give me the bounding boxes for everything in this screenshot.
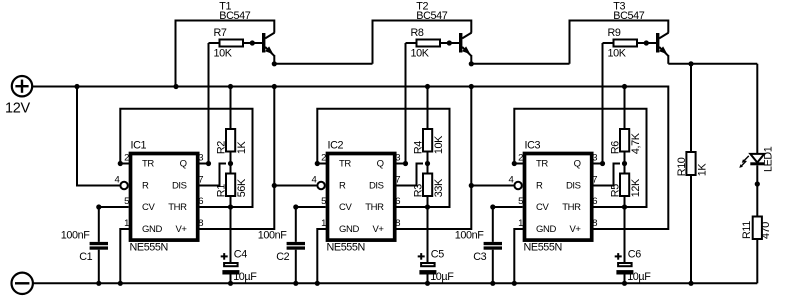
svg-text:1: 1 (321, 218, 326, 229)
svg-text:R2: R2 (216, 141, 228, 154)
svg-text:10K: 10K (433, 135, 445, 154)
svg-text:THR: THR (168, 202, 187, 213)
power supply +12V terminal (5, 76, 32, 117)
svg-text:R1: R1 (216, 184, 228, 197)
transistor T1 BC547 (219, 1, 274, 64)
wire IC2 GND to rail (317, 229, 328, 283)
svg-text:1: 1 (518, 218, 523, 229)
svg-text:1K: 1K (236, 140, 248, 154)
resistor R10 1K (676, 152, 709, 176)
svg-text:CV: CV (339, 202, 352, 213)
svg-text:DIS: DIS (172, 181, 187, 192)
wire IC1 TR-THR loop (120, 109, 252, 207)
wire CV to C2 (296, 207, 326, 242)
node cap-rail junction (96, 281, 101, 286)
resistor R8 10K (406, 27, 460, 60)
node cap-rail junction (490, 281, 495, 286)
svg-text:56K: 56K (236, 178, 248, 197)
wire T3 collector loop from T2 emitter (570, 21, 669, 64)
node Q junction (206, 161, 211, 166)
node TR corner junction (118, 161, 123, 166)
resistor R6 4,7K (610, 129, 642, 154)
transistor T2 BC547 (416, 1, 471, 64)
svg-text:IC3: IC3 (525, 139, 541, 151)
resistor R9 10K (603, 27, 657, 60)
svg-text:BC547: BC547 (613, 10, 644, 22)
svg-text:C6: C6 (628, 249, 641, 261)
svg-text:DIS: DIS (369, 181, 384, 192)
resistor R7 10K (209, 27, 263, 60)
op-amp IC2 NE555N timer (312, 139, 401, 253)
wire IC2 DIS to resistor divider (394, 164, 423, 186)
svg-text:R7: R7 (214, 27, 227, 39)
resistor R4 10K (413, 129, 445, 154)
svg-text:8: 8 (198, 218, 203, 229)
node junction (272, 183, 277, 188)
svg-text:3: 3 (592, 152, 597, 163)
wire IC1 Q output to R7 (197, 43, 209, 164)
pin 4 inversion bubble IC3 (514, 182, 521, 189)
wire emitter to R10 (690, 64, 692, 152)
svg-text:V+: V+ (570, 224, 582, 235)
svg-text:100nF: 100nF (258, 229, 287, 241)
wire to LED branch (756, 64, 758, 154)
wire T3 emitter to output branch (668, 63, 757, 65)
node divider junction (228, 161, 233, 166)
svg-text:Q: Q (377, 159, 384, 170)
svg-text:LED1: LED1 (762, 146, 774, 172)
svg-text:C3: C3 (473, 251, 486, 263)
node gnd junction (315, 281, 320, 286)
svg-text:6: 6 (592, 196, 597, 207)
node Q junction (600, 161, 605, 166)
node base junction (447, 40, 452, 45)
svg-text:TR: TR (536, 159, 548, 170)
svg-text:CV: CV (536, 202, 549, 213)
svg-text:R8: R8 (411, 27, 424, 39)
wire GND bottom rail (33, 282, 757, 284)
node T3 emitter junction (688, 61, 693, 66)
wire IC1 GND to rail (120, 229, 131, 283)
svg-text:R3: R3 (413, 184, 425, 197)
op-amp IC3 NE555N timer (509, 139, 598, 253)
svg-text:R: R (142, 181, 149, 192)
node THR junction (425, 204, 430, 209)
wire CV to C1 (99, 207, 129, 242)
svg-text:100nF: 100nF (61, 229, 90, 241)
capacitor C1 100nF (61, 229, 108, 283)
wire IC3 GND to rail (514, 229, 525, 283)
wire divider mid (624, 152, 626, 174)
node LED junction (755, 181, 760, 186)
wire CV to C3 (493, 207, 523, 242)
node divider junction (622, 161, 627, 166)
svg-text:R: R (536, 181, 543, 192)
svg-text:4: 4 (509, 174, 514, 185)
svg-text:GND: GND (339, 224, 359, 235)
svg-text:100nF: 100nF (455, 229, 484, 241)
node emitter junction (272, 61, 277, 66)
node emitter junction (469, 61, 474, 66)
wire 12V to R6 (624, 87, 626, 130)
svg-text:10µF: 10µF (233, 271, 257, 283)
resistor R1 56K (216, 174, 248, 198)
node CV junction (490, 204, 495, 209)
resistor R2 1K (216, 129, 248, 154)
svg-text:C1: C1 (79, 251, 92, 263)
capacitor C6 10µF (615, 249, 652, 284)
node cap-rail junction (425, 281, 430, 286)
svg-text:12V: 12V (5, 101, 31, 117)
node gnd junction (118, 281, 123, 286)
svg-text:THR: THR (365, 202, 384, 213)
node TR corner junction (512, 161, 517, 166)
svg-text:4: 4 (312, 174, 317, 185)
svg-text:R: R (339, 181, 346, 192)
LED LED1 (739, 146, 774, 172)
wire V+ feed IC2 pin8 / IC3 RESET (397, 87, 515, 230)
svg-text:BC547: BC547 (219, 10, 250, 22)
resistor R5 12K (610, 174, 642, 198)
wire IC3 DIS to resistor divider (591, 164, 620, 186)
svg-text:V+: V+ (373, 224, 385, 235)
node cap-rail junction (293, 281, 298, 286)
node junction (469, 183, 474, 188)
wire 12V to R4 (427, 87, 429, 130)
svg-text:R10: R10 (676, 157, 688, 176)
node base junction (644, 40, 649, 45)
svg-text:5: 5 (321, 196, 326, 207)
svg-text:TR: TR (339, 159, 351, 170)
svg-text:GND: GND (142, 224, 162, 235)
svg-text:4: 4 (115, 174, 120, 185)
pin 4 inversion bubble IC2 (317, 182, 324, 189)
wire IC2 Q output to R8 (394, 43, 406, 164)
capacitor C4 10µF (221, 249, 258, 284)
svg-text:2: 2 (321, 152, 326, 163)
node base junction (250, 40, 255, 45)
svg-text:10K: 10K (214, 48, 233, 60)
svg-text:Q: Q (180, 159, 187, 170)
svg-text:IC2: IC2 (328, 139, 344, 151)
svg-text:6: 6 (198, 196, 203, 207)
wire V+ feed IC1 RESET (77, 87, 120, 186)
svg-text:5: 5 (124, 196, 129, 207)
wire T2 collector loop from T1 emitter (373, 21, 472, 64)
capacitor C3 100nF (455, 229, 502, 283)
svg-text:2: 2 (518, 152, 523, 163)
wire divider mid (427, 152, 429, 174)
svg-text:CV: CV (142, 202, 155, 213)
resistor R3 33K (413, 174, 445, 198)
node R10 gnd junction (688, 281, 693, 286)
wire divider mid (230, 152, 232, 174)
svg-text:10µF: 10µF (430, 271, 454, 283)
svg-text:7: 7 (198, 174, 203, 185)
wire IC2 TR-THR loop (317, 109, 449, 207)
svg-text:Q: Q (574, 159, 581, 170)
pin 4 inversion bubble IC1 (120, 182, 127, 189)
svg-text:V+: V+ (176, 224, 188, 235)
svg-text:NE555N: NE555N (327, 242, 365, 254)
svg-text:R4: R4 (413, 141, 425, 154)
wire R5 to C6 (624, 196, 626, 263)
wire IC1 DIS to resistor divider (197, 164, 226, 186)
svg-text:3: 3 (395, 152, 400, 163)
transistor T3 BC547 (613, 1, 668, 64)
node CV junction (96, 204, 101, 209)
power supply - terminal (12, 273, 33, 294)
svg-text:5: 5 (518, 196, 523, 207)
svg-text:C4: C4 (234, 249, 247, 261)
wire R10 to GND rail (690, 175, 692, 283)
svg-text:3: 3 (198, 152, 203, 163)
node divider junction (425, 161, 430, 166)
svg-text:THR: THR (562, 202, 581, 213)
node THR junction (228, 204, 233, 209)
node Q junction (403, 161, 408, 166)
wire T1 collector to 12V rail (176, 21, 275, 87)
svg-text:4,7K: 4,7K (630, 132, 642, 154)
op-amp IC1 NE555N timer (115, 139, 204, 253)
capacitor C2 100nF (258, 229, 305, 283)
wire IC3 Q output to R9 (591, 43, 603, 164)
wire 12V to R2 (230, 87, 232, 130)
svg-text:BC547: BC547 (416, 10, 447, 22)
resistor R11 470 (741, 217, 772, 240)
node 12V rail junctions (74, 84, 627, 89)
svg-text:8: 8 (592, 218, 597, 229)
node cap-rail junction (622, 281, 627, 286)
svg-text:10K: 10K (608, 48, 627, 60)
svg-text:7: 7 (395, 174, 400, 185)
svg-text:R9: R9 (608, 27, 621, 39)
wire R1 to C4 (230, 196, 232, 263)
svg-text:7: 7 (592, 174, 597, 185)
svg-text:10µF: 10µF (627, 271, 651, 283)
node THR junction (622, 204, 627, 209)
svg-text:1K: 1K (697, 163, 709, 177)
node gnd junction (512, 281, 517, 286)
node cap-rail junction (228, 281, 233, 286)
wire +12V rail (32, 87, 668, 230)
svg-text:8: 8 (395, 218, 400, 229)
wire R11 to GND rail (756, 239, 758, 283)
wire T2 emitter to T3 collector loop (471, 63, 569, 65)
svg-text:R5: R5 (610, 184, 622, 197)
svg-text:TR: TR (142, 159, 154, 170)
svg-text:10K: 10K (411, 48, 430, 60)
wire V+ feed IC1 pin8 / IC2 RESET (200, 87, 318, 230)
node CV junction (293, 204, 298, 209)
svg-text:1: 1 (124, 218, 129, 229)
wire IC3 TR-THR loop (514, 109, 646, 207)
capacitor C5 10µF (418, 249, 455, 284)
svg-text:DIS: DIS (566, 181, 581, 192)
node TR corner junction (315, 161, 320, 166)
svg-text:33K: 33K (433, 178, 445, 197)
svg-text:R6: R6 (610, 141, 622, 154)
svg-text:IC1: IC1 (131, 139, 147, 151)
wire R3 to C5 (427, 196, 429, 263)
svg-text:C5: C5 (431, 249, 444, 261)
svg-text:GND: GND (536, 224, 556, 235)
svg-text:R11: R11 (741, 221, 753, 239)
svg-text:12K: 12K (630, 178, 642, 197)
svg-text:C2: C2 (276, 251, 289, 263)
svg-text:NE555N: NE555N (524, 242, 562, 254)
svg-text:470: 470 (760, 222, 772, 239)
svg-text:2: 2 (124, 152, 129, 163)
svg-text:6: 6 (395, 196, 400, 207)
svg-text:NE555N: NE555N (130, 242, 168, 254)
wire LED cathode to R11 (756, 165, 758, 216)
wire T1 emitter to T2 collector loop (274, 63, 372, 65)
